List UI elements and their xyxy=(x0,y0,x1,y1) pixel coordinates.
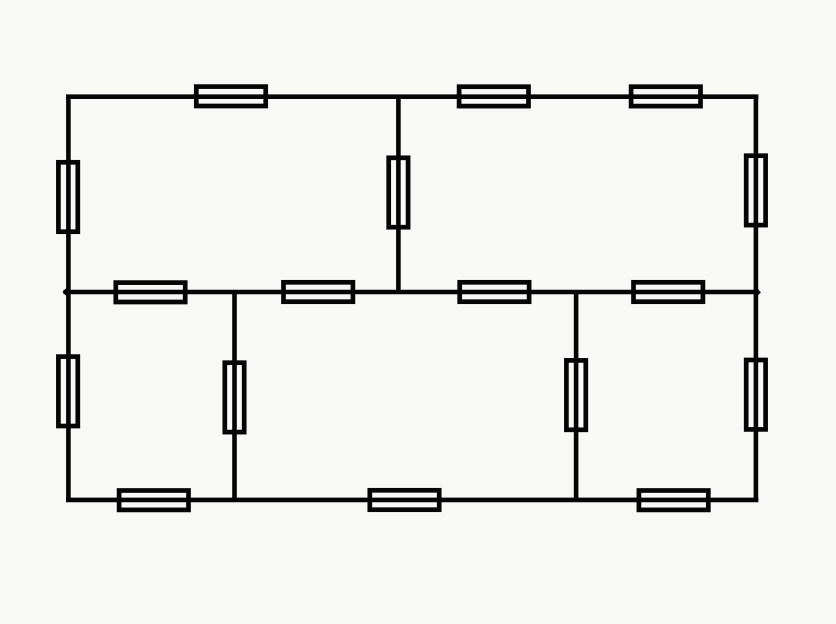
resistor R11 xyxy=(58,357,77,426)
resistor R13 xyxy=(566,360,585,429)
resistor R2 xyxy=(459,87,528,106)
resistor R4 xyxy=(58,162,77,231)
resistor R15 xyxy=(119,491,188,510)
wire left vertical lower xyxy=(66,292,71,500)
wire middle vertical upper xyxy=(396,97,401,292)
resistor R10 xyxy=(634,282,703,301)
resistor R5 xyxy=(389,158,408,227)
node A junction dot left-middle xyxy=(62,287,72,297)
wire bottom rail xyxy=(66,498,758,503)
wire second vertical lower xyxy=(232,292,237,500)
wire middle rail xyxy=(64,290,760,295)
wire right vertical lower xyxy=(754,292,759,500)
wire third vertical lower xyxy=(574,292,579,500)
resistor R16 xyxy=(370,490,439,509)
resistor R7 xyxy=(116,283,185,302)
resistor R14 xyxy=(746,360,765,429)
resistor R1 xyxy=(196,87,265,106)
resistor R6 xyxy=(746,156,765,225)
resistor R12 xyxy=(225,363,244,432)
resistor R8 xyxy=(284,282,353,301)
wire left vertical upper xyxy=(66,97,71,292)
wire top rail xyxy=(66,94,758,99)
resistor R3 xyxy=(631,87,700,106)
node B junction dot right-middle xyxy=(752,288,761,297)
wire right vertical upper xyxy=(754,97,759,292)
resistor R9 xyxy=(460,282,529,301)
resistor R17 xyxy=(639,491,708,510)
